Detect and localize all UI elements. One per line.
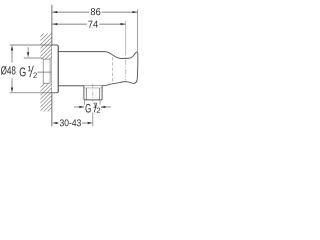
dimension 86 arrowheads: [52, 11, 138, 13]
outlet nipple: [84, 86, 102, 100]
outlet centerline lower / 30-43 right extension: [92, 113, 94, 127]
G1/2 dimension arrows (bottom): [74, 106, 84, 108]
G1/2 leader arrow (top left): [27, 47, 29, 53]
extension line flange bottom: [10, 92, 52, 94]
dimension 74 label: [88, 21, 98, 28]
extension line 74 / cradle centerline: [125, 21, 127, 51]
surface mark line under leader arrow: [24, 57, 43, 59]
dimension 30-43 label: [60, 119, 81, 126]
dimension 86 label: [91, 8, 101, 15]
extension line flange top: [10, 44, 52, 46]
dimension 74 line: [52, 23, 125, 25]
G1/2 label (top left): [20, 66, 37, 78]
dimension 30-43 line: [56, 122, 90, 124]
outlet centerline upper: [92, 84, 94, 102]
dimension 30-43 arrowheads: [52, 122, 93, 124]
extension line 86 right: [137, 10, 139, 52]
flange (escutcheon side view): [52, 45, 59, 93]
outlet nipple side lines: [85, 88, 87, 100]
holder body outline: [58, 52, 138, 86]
concealed fitting box in wall: [43, 59, 50, 83]
wall face line with extension ends: [51, 5, 53, 127]
dimension D48 line: [11, 49, 13, 89]
holder slot hidden edge (dashed): [112, 57, 114, 83]
G1/2 leader line to fitting: [38, 71, 52, 73]
G1/2 label (bottom): [86, 103, 101, 113]
dimension D48 arrowheads: [11, 45, 13, 92]
wall hatching: [28, 0, 56, 139]
dimension D48 label: [1, 66, 16, 75]
flange inner edge line: [56, 46, 58, 92]
G1/2 extension stubs under nipple: [84, 101, 86, 105]
outlet nipple shoulder line: [84, 87, 102, 89]
dimension 86 line: [52, 11, 137, 13]
dimension 74 arrowheads: [52, 23, 126, 25]
